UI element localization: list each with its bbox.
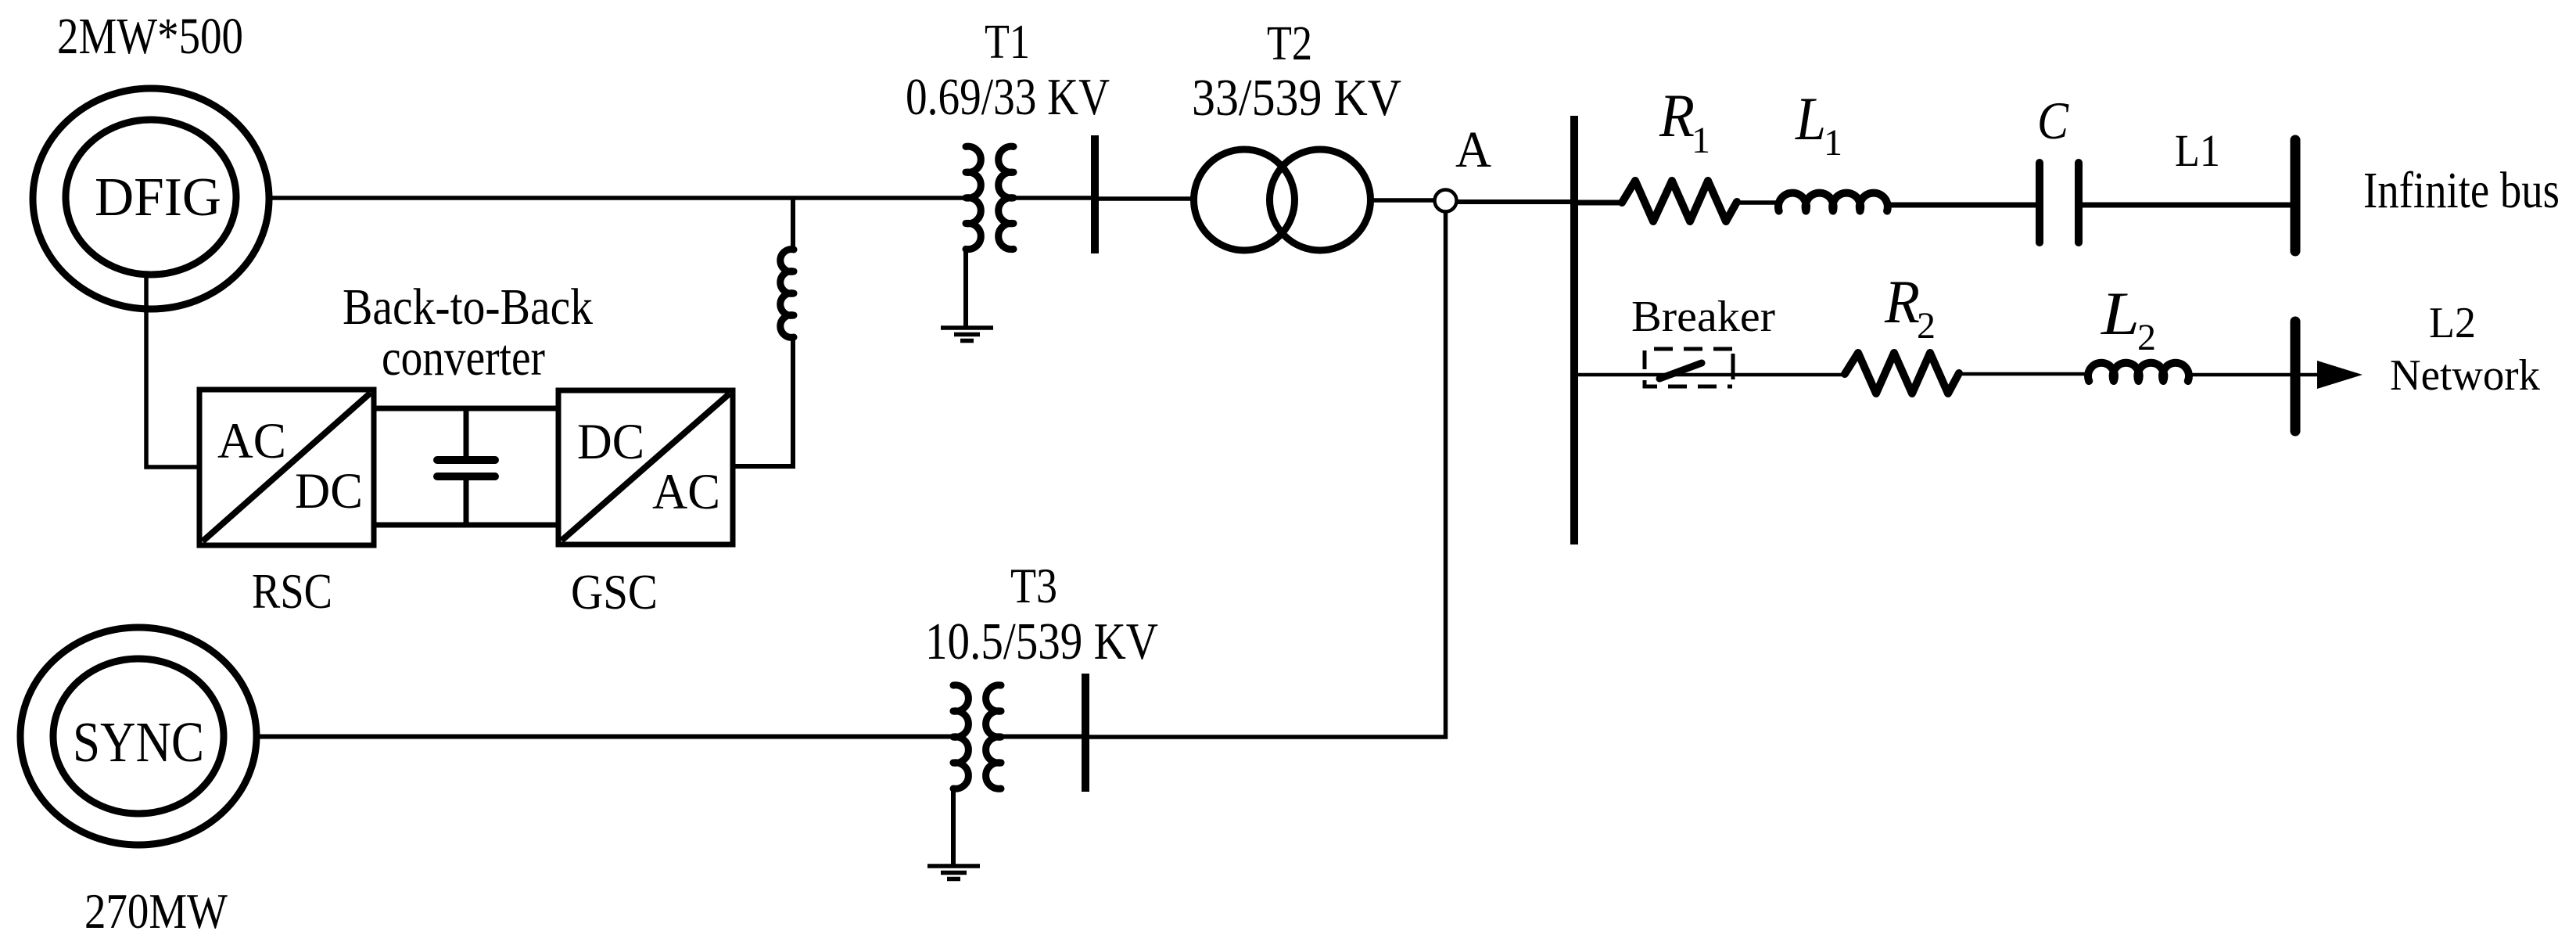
capacitor C	[2040, 163, 2079, 243]
svg-text:L2: L2	[2429, 299, 2476, 347]
svg-text:Back-to-Back: Back-to-Back	[343, 279, 593, 336]
ground (T3)	[927, 866, 980, 879]
svg-text:AC: AC	[217, 413, 286, 469]
wire RSC-GSC top dc link	[374, 406, 558, 411]
svg-text:Infinite bus: Infinite bus	[2363, 162, 2560, 219]
ground (T1)	[941, 328, 993, 341]
transformer T3	[953, 685, 1001, 789]
inductor choke (GSC filter)	[780, 250, 794, 338]
node A	[1435, 190, 1457, 212]
wire node A to main bus	[1457, 199, 1574, 204]
svg-text:10.5/539 KV: 10.5/539 KV	[925, 613, 1158, 670]
svg-text:1: 1	[1824, 122, 1842, 164]
svg-text:0.69/33 KV: 0.69/33 KV	[906, 68, 1110, 126]
svg-text:L: L	[1795, 84, 1826, 153]
wire T3 to bus	[1001, 735, 1085, 739]
wire C to L1 bus	[2083, 203, 2293, 208]
svg-text:DC: DC	[295, 463, 363, 519]
generator DFIG	[33, 88, 269, 309]
svg-text:1: 1	[1692, 120, 1710, 161]
svg-text:T2: T2	[1267, 17, 1312, 70]
resistor R1	[1622, 181, 1737, 221]
wire T1 to bus	[1014, 196, 1095, 200]
wire RSC-GSC bottom dc link	[374, 523, 558, 528]
wire node A down to T3 line	[1089, 211, 1446, 737]
wire R2 to L2	[1959, 372, 2085, 376]
svg-text:DFIG: DFIG	[95, 167, 221, 228]
svg-text:R: R	[1659, 81, 1695, 149]
arrow to network	[2317, 361, 2363, 389]
wire L1 to C	[1886, 203, 2037, 208]
capacitor dc-link	[437, 408, 495, 525]
wire DFIG stator to T1	[269, 196, 966, 200]
wire R1 to L1	[1737, 200, 1780, 205]
wire T2 to node A	[1370, 198, 1434, 203]
wire L2 to L2 bus and arrow	[2191, 373, 2319, 377]
svg-text:GSC: GSC	[571, 565, 658, 620]
transformer T1	[966, 146, 1014, 249]
svg-text:2: 2	[2137, 317, 2156, 358]
wire choke to stator wire junction	[791, 198, 795, 250]
wire T3 ground stem	[951, 789, 956, 866]
converter GSC box	[558, 390, 733, 544]
bus bar (T1 output)	[1091, 135, 1099, 253]
bus bar L1 (infinite bus)	[2291, 140, 2301, 251]
svg-text:T1: T1	[985, 16, 1030, 69]
bus bar (T3 output)	[1082, 674, 1089, 792]
svg-text:R: R	[1884, 268, 1920, 336]
wire T1 ground stem	[963, 249, 968, 328]
wire bus to T2	[1095, 196, 1191, 201]
svg-text:L: L	[2101, 279, 2140, 347]
inductor L2	[2088, 363, 2189, 381]
svg-text:C: C	[2037, 91, 2069, 150]
wire GSC output to choke	[733, 337, 793, 466]
svg-text:AC: AC	[652, 464, 720, 520]
svg-text:2MW*500: 2MW*500	[57, 8, 243, 65]
svg-text:DC: DC	[577, 414, 644, 470]
svg-text:2: 2	[1917, 305, 1936, 347]
breaker	[1645, 349, 1733, 386]
svg-text:Breaker: Breaker	[1631, 293, 1775, 341]
svg-text:A: A	[1455, 121, 1491, 178]
inductor L1	[1778, 193, 1888, 211]
svg-text:converter: converter	[382, 329, 545, 386]
converter RSC box	[199, 390, 374, 545]
bus bar L2	[2291, 322, 2301, 431]
wire DFIG rotor down to RSC	[146, 275, 199, 467]
wire bus to R1	[1574, 200, 1623, 206]
svg-text:L1: L1	[2175, 125, 2220, 176]
svg-text:270MW: 270MW	[84, 883, 228, 938]
wire bus to breaker and R2	[1574, 373, 1846, 377]
wire SYNC to T3	[258, 735, 953, 739]
resistor R2	[1845, 353, 1959, 394]
generator SYNC	[20, 627, 257, 845]
bus bar (point A bus)	[1570, 116, 1578, 544]
transformer T2	[1194, 149, 1371, 250]
svg-text:33/539 KV: 33/539 KV	[1192, 69, 1401, 127]
svg-text:SYNC: SYNC	[73, 710, 204, 774]
svg-text:T3: T3	[1010, 558, 1057, 613]
svg-text:Network: Network	[2390, 351, 2540, 400]
svg-text:RSC: RSC	[252, 564, 332, 619]
